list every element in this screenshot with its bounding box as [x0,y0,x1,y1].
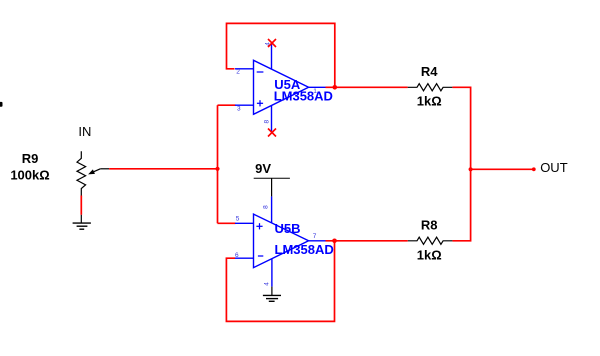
potentiometer R9 [77,151,109,195]
label R4 1kΩ [417,64,442,108]
wire wiper to middle junction [109,168,217,170]
wire U5A output to R4 [326,86,408,88]
svg-text:9V: 9V [255,161,271,176]
svg-text:LM358AD: LM358AD [274,88,333,103]
wire to OUT terminal [471,168,534,170]
partial label at left edge [0,102,3,107]
wire U5B feedback loop [226,241,334,322]
label R8 1kΩ [417,217,442,262]
wire to U5A pin3 [218,104,236,106]
OUT terminal dot [532,167,536,171]
svg-text:R9: R9 [22,151,39,166]
resistor R8 [408,237,453,244]
svg-text:5: 5 [236,215,240,222]
resistor R4 [408,84,453,91]
svg-text:2: 2 [236,69,240,76]
svg-text:7: 7 [313,233,317,240]
svg-text:IN: IN [78,124,91,139]
svg-text:U5B: U5B [275,221,301,236]
no-connect X on U5A top power pin [268,39,276,47]
svg-text:6: 6 [235,252,239,259]
label R9 100kΩ [10,151,49,183]
wire to U5B pin5 [218,222,236,224]
wire U5A feedback loop [227,23,335,87]
svg-text:8: 8 [263,205,270,209]
no-connect X on U5A bottom power pin [268,129,276,137]
svg-text:3: 3 [237,106,241,113]
svg-text:R8: R8 [421,217,438,232]
svg-text:8: 8 [263,120,270,124]
ground (below R9) [73,215,91,229]
label U5B / LM358AD [275,221,334,257]
wire pot bottom to ground [80,196,82,215]
ground (below U5B) [263,287,281,302]
svg-text:OUT: OUT [540,160,568,175]
junction OUT [469,167,473,171]
wire R4 to OUT column [452,87,470,241]
junction U5A output [333,85,338,90]
svg-text:100kΩ: 100kΩ [10,167,49,182]
9V supply symbol [254,178,290,196]
svg-text:1kΩ: 1kΩ [417,93,442,108]
op-amp U5A [235,44,326,133]
svg-text:LM358AD: LM358AD [275,242,334,257]
wire vertical between pin3 and pin5 [217,105,219,223]
svg-text:4: 4 [264,282,271,286]
label U5A / LM358AD [274,77,333,103]
wiper arrowhead of R9 [88,169,95,174]
wire U5B output to R8 [326,240,408,242]
svg-text:R4: R4 [421,64,438,79]
svg-text:1kΩ: 1kΩ [417,248,442,263]
junction U5B output [332,239,337,244]
junction middle node [215,167,219,171]
op-amp U5B [235,196,326,286]
